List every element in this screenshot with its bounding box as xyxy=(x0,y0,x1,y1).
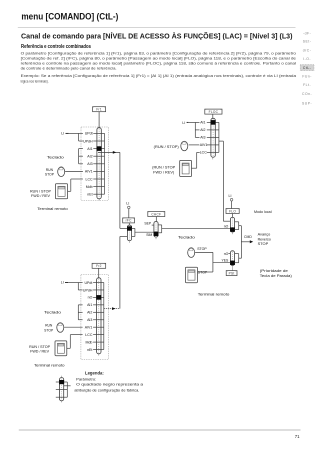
svg-text:FWD / REV: FWD / REV xyxy=(31,194,51,198)
wire LI bracket diagram2 xyxy=(68,282,78,284)
wire LI bracket diagram1 xyxy=(69,132,79,134)
svg-text:Parâmetro:: Parâmetro: xyxy=(76,378,96,382)
wire rFC box to switch xyxy=(128,223,130,225)
svg-text:LI: LI xyxy=(61,132,64,136)
factory square Fr2 = nO xyxy=(96,295,101,300)
svg-text:Mdb: Mdb xyxy=(85,340,92,344)
wire remote terminal to LCC diagram3 xyxy=(192,167,197,169)
factory square rFC top port (Fr1) xyxy=(127,226,132,230)
svg-text:Mdb: Mdb xyxy=(86,185,93,189)
svg-text:AI1: AI1 xyxy=(87,147,92,151)
svg-text:STOP: STOP xyxy=(197,247,207,251)
svg-text:Tecla de Parada): Tecla de Parada) xyxy=(260,274,292,278)
row ticks and labels Fr1 xyxy=(93,132,104,134)
svg-text:Teclado: Teclado xyxy=(44,311,61,315)
switch CHCF xyxy=(154,222,158,238)
svg-text:Teclado: Teclado xyxy=(47,155,64,159)
svg-text:Terminal remoto: Terminal remoto xyxy=(37,207,68,211)
wire remote terminal to LCC diagram2 xyxy=(67,347,71,349)
jog dial icon diagram2 xyxy=(57,323,64,333)
parameter box FLO xyxy=(226,209,239,214)
factory square CHCF bottom port (SIM) xyxy=(154,232,159,236)
wire FLOC box to strip xyxy=(212,114,214,118)
FLO bottom stub xyxy=(231,232,233,234)
wire LI to FLO box xyxy=(231,201,233,209)
svg-text:Terminal remoto: Terminal remoto xyxy=(198,292,230,296)
footer rule xyxy=(19,429,301,431)
remote terminal icon diagram2 xyxy=(55,341,67,356)
svg-text:nO: nO xyxy=(88,296,93,300)
jog dial icon keypad STOP xyxy=(188,248,195,258)
svg-text:Exemplo: Se a referência [Conf: Exemplo: Se a referência [Configuração d… xyxy=(21,73,297,78)
CHCF bottom stub xyxy=(155,237,157,239)
svg-text:I-O-: I-O- xyxy=(303,57,311,61)
selector strip Fr1 xyxy=(97,128,101,199)
svg-text:-dF-: -dF- xyxy=(303,32,311,36)
svg-text:Avanço: Avanço xyxy=(258,233,271,237)
svg-text:Fr1: Fr1 xyxy=(96,107,102,111)
svg-text:Terminal remoto: Terminal remoto xyxy=(34,363,65,367)
legend symbol strip xyxy=(60,378,64,401)
row ticks and labels Fr2 xyxy=(93,282,104,284)
switch rFC xyxy=(127,225,131,241)
wire jog dial to AIV1 diagram3 xyxy=(189,144,200,146)
svg-text:LCC: LCC xyxy=(200,151,208,155)
svg-text:Legenda:: Legenda: xyxy=(85,370,104,375)
parameter box Fr1 xyxy=(93,107,106,112)
svg-text:AI1: AI1 xyxy=(87,303,92,307)
svg-text:AI3: AI3 xyxy=(87,318,92,322)
svg-text:UPdH: UPdH xyxy=(83,288,93,292)
svg-text:(RUN / STOP: (RUN / STOP xyxy=(152,166,176,170)
svg-text:(Prioridade de: (Prioridade de xyxy=(260,269,288,273)
svg-text:Reverso: Reverso xyxy=(258,237,271,241)
wire rFC output bracket xyxy=(132,227,135,229)
svg-text:FWD / REV: FWD / REV xyxy=(30,350,50,354)
svg-text:AI2: AI2 xyxy=(87,155,92,159)
svg-text:LI: LI xyxy=(182,121,185,125)
svg-text:FWD / REV): FWD / REV) xyxy=(153,170,174,174)
factory square FLO bottom port xyxy=(230,227,235,231)
selector strip Fr2 xyxy=(97,278,101,354)
svg-text:COn-: COn- xyxy=(302,92,312,96)
wire CHCF output to FLO switch xyxy=(158,224,162,226)
svg-text:RUN / STOP: RUN / STOP xyxy=(30,189,52,193)
wire PSt output bracket xyxy=(235,253,239,255)
wire FLO box to switch xyxy=(231,214,233,218)
svg-text:rFC: rFC xyxy=(126,219,133,223)
svg-text:LCC: LCC xyxy=(85,177,93,181)
wire STOP junction to PSt xyxy=(212,252,214,272)
svg-text:lógica nos terminais).: lógica nos terminais). xyxy=(21,78,49,83)
wire LI to rFC box xyxy=(128,209,130,218)
wire keypad STOP to junction xyxy=(195,251,213,253)
svg-text:SEt-: SEt- xyxy=(303,40,312,44)
svg-text:RUN: RUN xyxy=(45,324,53,328)
svg-text:CMD: CMD xyxy=(244,235,252,239)
remote terminal icon STOP remote xyxy=(185,267,197,282)
parameter box PSt xyxy=(226,271,237,276)
svg-text:(RUN / STOP): (RUN / STOP) xyxy=(154,145,179,149)
legend output line xyxy=(64,385,71,387)
svg-text:CHCF: CHCF xyxy=(151,212,161,216)
legend right rail xyxy=(66,382,68,397)
svg-text:Referência e controle combinad: Referência e controle combinados xyxy=(21,44,91,50)
svg-text:RUN / STOP: RUN / STOP xyxy=(29,345,51,349)
CMD output arrow xyxy=(241,241,250,243)
svg-text:YES: YES xyxy=(222,259,230,263)
rFC bottom stub xyxy=(128,241,130,243)
svg-text:Fr2: Fr2 xyxy=(96,264,102,268)
svg-text:SEP: SEP xyxy=(144,221,152,225)
svg-text:LCC: LCC xyxy=(85,333,93,337)
right rail FLOC xyxy=(218,122,220,152)
svg-text:O quadrado negro representa a: O quadrado negro representa a xyxy=(76,383,144,387)
svg-text:Modo local: Modo local xyxy=(254,210,272,214)
wire Fr1 box to strip xyxy=(98,112,100,128)
right rail Fr1 xyxy=(104,133,106,194)
factory square Fr1 = AI1 xyxy=(97,146,102,151)
wire Fr2 output to rFC xyxy=(104,308,120,310)
svg-text:UPdt: UPdt xyxy=(85,281,93,285)
svg-text:FLt-: FLt- xyxy=(303,83,311,87)
legend row lines xyxy=(56,381,68,383)
remote terminal icon diagram1 xyxy=(55,184,67,199)
dashed box Fr2 selector xyxy=(81,275,109,360)
right rail Fr2 xyxy=(103,283,105,350)
svg-text:LI: LI xyxy=(61,281,64,285)
jog dial icon diagram1 xyxy=(58,167,65,177)
strip Fr1 bottom stub xyxy=(98,199,100,201)
wire Teclado bracket diagram1 xyxy=(78,149,80,164)
jog dial icon diagram3 xyxy=(181,141,188,151)
wire Fr2 box to strip xyxy=(98,268,100,278)
svg-text:AIV1: AIV1 xyxy=(85,170,93,174)
svg-text:UPdH: UPdH xyxy=(83,139,93,143)
svg-text:menu [COMANDO] (CtL-): menu [COMANDO] (CtL-) xyxy=(21,11,118,21)
legend strip stubs xyxy=(61,376,63,378)
sidebar highlight CtL- xyxy=(300,65,314,71)
parameter box rFC xyxy=(123,218,135,223)
rule above section heading xyxy=(18,27,296,29)
svg-text:71: 71 xyxy=(295,434,300,439)
wire remote terminal to LCC diagram1 xyxy=(68,190,71,192)
svg-text:de controle é determinado pelo: de controle é determinado pelo canal de … xyxy=(21,66,117,71)
svg-text:FUn-: FUn- xyxy=(302,75,312,79)
svg-text:UPdt: UPdt xyxy=(85,132,93,136)
svg-text:AIV1: AIV1 xyxy=(200,143,208,147)
wire jog dial to AIV1 diagram2 xyxy=(64,326,82,328)
wire remote STOP to junction xyxy=(198,271,213,273)
svg-text:AI3: AI3 xyxy=(200,136,205,140)
strip Fr2 bottom stub xyxy=(98,354,100,356)
svg-text:STOP: STOP xyxy=(45,173,55,177)
svg-text:nEt: nEt xyxy=(87,193,92,197)
wire CHCF box to switch xyxy=(155,217,157,222)
switch PSt xyxy=(230,251,234,266)
wire Fr1 output to rFC xyxy=(98,151,120,153)
strip FLOC bottom stub xyxy=(212,157,214,159)
parameter box CHCF xyxy=(148,212,165,217)
svg-text:STOP: STOP xyxy=(198,270,208,274)
svg-text:nO: nO xyxy=(224,224,229,228)
wire PSt switch to PSt box xyxy=(231,265,233,270)
wire FLOC output down to FLO switch xyxy=(219,140,224,142)
svg-text:SUP-: SUP- xyxy=(302,102,312,106)
wire FLO output bracket xyxy=(235,221,239,223)
svg-text:LI: LI xyxy=(126,202,129,206)
svg-text:nEt: nEt xyxy=(87,348,92,352)
svg-text:Canal de comando para [NÍVEL D: Canal de comando para [NÍVEL DE ACESSO À… xyxy=(21,32,293,41)
svg-text:FLOC: FLOC xyxy=(209,110,219,114)
svg-text:AI3: AI3 xyxy=(87,162,92,166)
svg-text:CtL-: CtL- xyxy=(303,66,311,70)
svg-text:nO: nO xyxy=(224,252,229,256)
svg-text:AI2: AI2 xyxy=(87,311,92,315)
wire Teclado bracket diagram2 xyxy=(77,305,79,320)
svg-text:AI2: AI2 xyxy=(200,128,205,132)
svg-text:drC-: drC- xyxy=(303,48,312,52)
svg-text:FLO: FLO xyxy=(229,209,236,213)
switch FLO xyxy=(230,217,234,232)
wire LI bracket diagram3 xyxy=(188,121,195,123)
svg-text:atribuição de configuração de: atribuição de configuração de fábrica. xyxy=(74,389,139,393)
svg-text:LI: LI xyxy=(229,194,232,198)
svg-text:RUN: RUN xyxy=(46,168,54,172)
svg-text:AI1: AI1 xyxy=(200,121,205,125)
legend factory square xyxy=(59,380,64,384)
svg-text:STOP: STOP xyxy=(258,242,269,246)
factory square PSt bottom port (YES) xyxy=(230,261,235,265)
selector strip FLOC xyxy=(211,118,215,157)
remote terminal icon diagram3 xyxy=(180,160,192,176)
wire jog dial to AIV1 xyxy=(65,170,83,172)
dashed box Fr1 selector xyxy=(81,127,108,201)
parameter box FLOC xyxy=(205,109,222,114)
parameter box Fr2 xyxy=(92,263,106,268)
svg-text:PSt: PSt xyxy=(229,271,235,275)
svg-text:Teclado: Teclado xyxy=(178,236,195,240)
wire CMD rail xyxy=(240,226,242,259)
svg-text:SIM: SIM xyxy=(146,233,152,237)
svg-text:STOP: STOP xyxy=(44,328,54,332)
factory square FLOC = AI1 xyxy=(211,120,216,125)
row ticks and labels FLOC xyxy=(207,121,219,123)
svg-text:AIV1: AIV1 xyxy=(85,326,93,330)
